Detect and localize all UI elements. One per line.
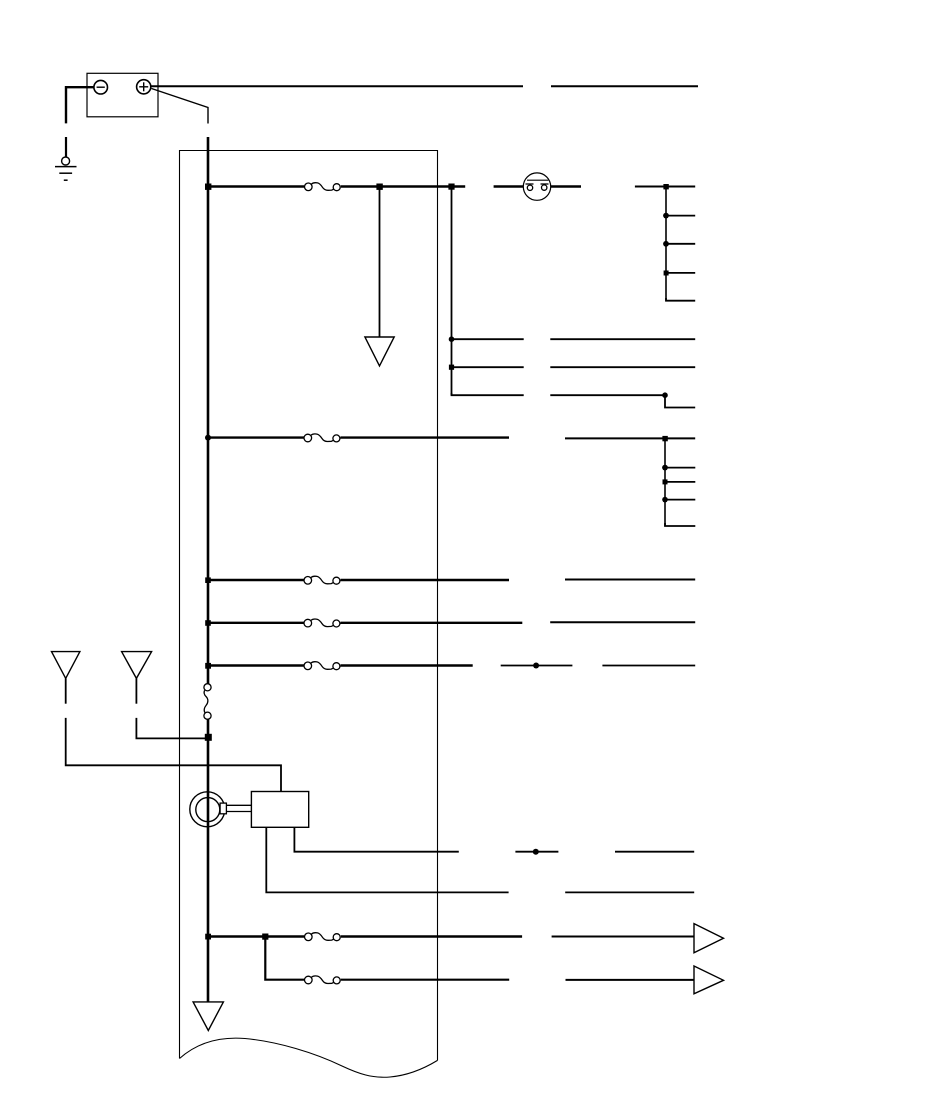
antenna arrow T1 (left page-in triangle): [52, 652, 282, 792]
relay box K1: [251, 792, 308, 828]
node H (row5 mid): [533, 663, 539, 669]
node D: [449, 336, 455, 342]
wire row y=892 right segment: [565, 891, 694, 893]
node I (feed joins main bus): [205, 734, 212, 741]
wire row y=852 right segments: [515, 851, 694, 853]
fuse F2: [304, 434, 340, 442]
node bus2: [205, 435, 211, 441]
bus row 5 (y=665.5): [208, 664, 695, 666]
fuse F6: [305, 933, 341, 941]
ignition switch S1 (circle symbol): [523, 173, 550, 200]
wire comb 2 vertical: [664, 438, 666, 526]
node C (junction bus1 right / comb 1): [663, 184, 668, 189]
right column branch rows: [452, 339, 696, 407]
node F: [662, 392, 668, 398]
node comb1-2: [663, 241, 669, 247]
node A (junction bus1 / mid ground drop): [376, 184, 382, 190]
node bus3: [205, 577, 211, 583]
fuse F3: [304, 576, 340, 584]
node bus4: [205, 620, 211, 626]
fuse F-main (vertical fusible link on main bus): [204, 684, 211, 720]
arrow out row 7: [694, 966, 724, 994]
ground arrow (bottom of main bus): [193, 1002, 223, 1031]
fuse F1: [305, 183, 341, 191]
node comb1-1: [663, 213, 669, 219]
bus row 7 (y=979.7): [341, 979, 694, 981]
wire right column vertical: [451, 187, 453, 396]
wire battery negative to ground: [66, 87, 94, 157]
node comb2-3: [662, 497, 668, 503]
node J (row 852 mid): [533, 849, 539, 855]
ground arrow (mid, open triangle): [365, 337, 394, 366]
node comb2-2: [663, 479, 668, 484]
bus row 1 (y=186.5): [208, 185, 695, 187]
fuse F7: [305, 976, 341, 984]
wire row6 to row7 drop: [265, 937, 304, 980]
node comb1-3: [664, 271, 669, 276]
bus row 4 (y=622.8): [208, 621, 695, 624]
wire relay box outputs: [266, 827, 508, 892]
bus row 6 (y=936.5): [208, 935, 694, 937]
node B (junction bus1 / right column): [448, 184, 454, 190]
node G (bus2 / comb 2): [662, 436, 667, 441]
node comb2-1: [662, 465, 668, 471]
fuse F4: [304, 619, 340, 627]
bus row 3 (y=580): [208, 578, 695, 581]
wire battery positive row (top): [151, 85, 699, 87]
node E: [449, 365, 454, 370]
arrow out row 6: [694, 924, 724, 953]
dashed body box (fuse box outline with torn bottom): [180, 151, 438, 1078]
wire main bus vertical: [207, 137, 210, 1002]
wire drop to mid ground arrow: [379, 187, 381, 338]
noise suppressor ring L1: [190, 792, 225, 827]
comb 2 branches: [665, 468, 695, 526]
bus row 2 (y=438): [208, 436, 695, 439]
node K (row6 / row7 tap): [262, 934, 268, 940]
battery BAT1: [87, 73, 158, 117]
connector stub to relay box: [220, 803, 251, 814]
wire diagonal from battery positive to main bus: [152, 89, 209, 124]
node bus6: [205, 934, 211, 940]
antenna arrow T2 (right page-in triangle): [122, 652, 209, 739]
fuse F5: [304, 662, 340, 670]
node on main bus row 1: [205, 184, 211, 190]
ground G1 (battery ground): [55, 157, 77, 180]
node bus5: [205, 663, 211, 669]
comb 1 branches: [666, 216, 695, 301]
wire comb 1 vertical: [665, 187, 667, 301]
